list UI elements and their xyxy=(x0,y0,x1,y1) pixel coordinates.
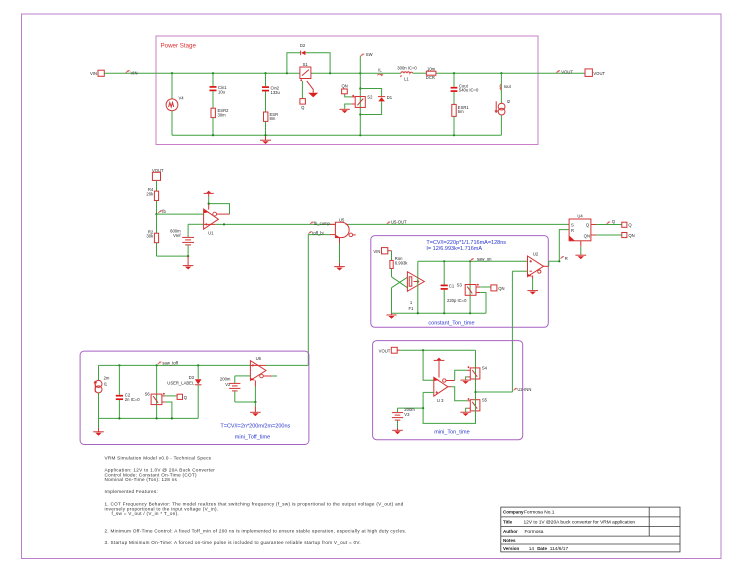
svg-text:VOUT: VOUT xyxy=(561,69,573,74)
junction C2 bottom xyxy=(118,417,120,419)
capacitor C2 xyxy=(116,365,140,418)
crossing input wires F1 xyxy=(392,277,408,313)
switch S3 xyxy=(457,261,479,313)
port VOUT xyxy=(585,69,605,77)
power flag U1 xyxy=(204,191,214,210)
voltage source V2 xyxy=(220,376,240,402)
junction Cin2 xyxy=(264,72,266,74)
bottom rail mini_Toff xyxy=(99,417,199,419)
svg-text:QN: QN xyxy=(584,233,591,238)
mini_Toff_time box xyxy=(80,351,309,444)
title block company row xyxy=(503,510,555,516)
svg-text:Vref: Vref xyxy=(173,233,181,238)
svg-text:10m: 10m xyxy=(427,66,436,71)
svg-text:S3: S3 xyxy=(457,282,463,287)
junction S6 top xyxy=(156,364,158,366)
resistor R4 xyxy=(146,180,158,214)
title block author row xyxy=(503,529,544,535)
ground input rail xyxy=(260,135,271,144)
svg-text:S: S xyxy=(571,223,574,228)
wire VIN to S1 xyxy=(104,72,300,74)
junction S3 top xyxy=(469,260,471,262)
port VOUT (mini_Ton) xyxy=(379,347,401,353)
port Q (S6) xyxy=(177,394,188,400)
junction U3 branch xyxy=(422,349,424,351)
svg-text:C1: C1 xyxy=(449,283,455,288)
switch S4 xyxy=(468,350,488,392)
current source I1 xyxy=(94,365,110,418)
net flag fb xyxy=(158,209,166,214)
junction Cin1 xyxy=(212,72,214,74)
ground S2 control xyxy=(339,109,349,113)
svg-text:D2: D2 xyxy=(300,43,306,48)
svg-text:QN: QN xyxy=(341,84,347,89)
port VOUT (feedback divider) xyxy=(152,168,164,181)
wire VOUT to S4 xyxy=(400,349,475,351)
net flag SW xyxy=(360,52,372,73)
comparator U1 xyxy=(204,209,219,236)
svg-text:2m: 2m xyxy=(104,376,110,381)
svg-text:VIN: VIN xyxy=(131,71,138,76)
diode D1 xyxy=(378,95,393,101)
capacitor C1 xyxy=(441,261,468,313)
diode D2 loop wire xyxy=(287,53,330,73)
svg-text:200m: 200m xyxy=(220,376,231,381)
net flag R xyxy=(561,256,568,261)
U6 minus input wire xyxy=(235,375,251,377)
bottom rail Ton generator xyxy=(392,312,487,314)
svg-text:U6: U6 xyxy=(256,356,262,361)
svg-text:D1: D1 xyxy=(387,95,393,100)
svg-text:mini_Ton_time: mini_Ton_time xyxy=(434,430,469,436)
bottom rail power stage xyxy=(172,134,501,136)
svg-text:3. Startup Minimum On-Time: A: 3. Startup Minimum On-Time: A forced on-… xyxy=(105,540,361,545)
svg-text:QN: QN xyxy=(498,286,504,291)
port VIN xyxy=(90,70,104,76)
svg-text:F1: F1 xyxy=(409,306,415,311)
junction VIN/V4 xyxy=(171,72,173,74)
svg-text:2. Minimum Off-Time Control: A: 2. Minimum Off-Time Control: A fixed Tof… xyxy=(105,528,407,533)
current flag IL xyxy=(377,68,383,76)
svg-text:Iout: Iout xyxy=(504,84,512,89)
junction D1 top xyxy=(359,87,361,89)
switch S2 xyxy=(352,73,373,135)
comparator U3 xyxy=(434,377,448,403)
junction S4/S5 node xyxy=(474,391,476,393)
junction rail Cin1 xyxy=(212,134,214,136)
switch S5 xyxy=(468,392,488,423)
junction fb xyxy=(155,213,157,215)
dependent source F1 xyxy=(407,272,424,311)
U2 ground xyxy=(527,276,538,295)
junction C1 bottom xyxy=(443,312,445,314)
svg-text:S5: S5 xyxy=(482,397,488,402)
voltage source Vref 600m xyxy=(170,224,194,256)
svg-text:U5: U5 xyxy=(339,217,345,222)
svg-text:Date: Date xyxy=(537,546,547,551)
junction F1 bottom xyxy=(417,312,419,314)
port QN (S3) xyxy=(491,285,505,291)
junction S6 return xyxy=(171,417,173,419)
svg-text:Title: Title xyxy=(503,519,513,524)
resistor Ron xyxy=(390,251,408,277)
resistor R2 xyxy=(146,214,158,256)
junction C2 top xyxy=(118,364,120,366)
svg-text:8m: 8m xyxy=(270,116,276,121)
S5 control from U3 output xyxy=(448,387,470,401)
svg-text:Power Stage: Power Stage xyxy=(161,43,197,50)
S6 control return xyxy=(162,402,172,418)
svg-text:DCR: DCR xyxy=(426,75,435,80)
svg-text:R: R xyxy=(571,228,574,233)
svg-text:30k: 30k xyxy=(146,234,154,239)
svg-text:U4: U4 xyxy=(577,214,583,219)
NAND gate U5 xyxy=(330,217,356,237)
U2 minus input wire xyxy=(512,270,527,272)
svg-text:220p IC=0: 220p IC=0 xyxy=(447,298,467,303)
junction D1 bottom xyxy=(359,113,361,115)
S3 control wire to QN xyxy=(476,286,491,288)
inductor L1 xyxy=(397,65,417,81)
U6 through line and output xyxy=(250,364,308,366)
svg-text:Formosa: Formosa xyxy=(525,529,544,535)
S2 control wiring xyxy=(345,94,356,109)
svg-text:S6: S6 xyxy=(145,391,151,396)
svg-text:Version: Version xyxy=(503,546,520,551)
wire DCR to VOUT port xyxy=(436,72,585,74)
svg-text:Company: Company xyxy=(503,510,524,515)
svg-text:VIN: VIN xyxy=(373,249,380,254)
comparator U2 xyxy=(528,251,544,276)
svg-text:USER_LABEL: USER_LABEL xyxy=(167,380,195,385)
S3 control return xyxy=(476,293,486,314)
svg-text:toff_bi: toff_bi xyxy=(312,230,323,235)
svg-text:T=CV/I=2n*200m/2m=200ns: T=CV/I=2n*200m/2m=200ns xyxy=(220,424,290,430)
voltage source V3 xyxy=(392,407,423,434)
ground S5 control xyxy=(460,408,470,416)
diode D3 xyxy=(167,365,201,418)
junction D3 top xyxy=(197,364,199,366)
junction C1 top xyxy=(443,260,445,262)
U1 hysteresis loop xyxy=(208,203,230,215)
svg-text:12V to 1V @20A buck converter: 12V to 1V @20A buck converter for VRM ap… xyxy=(524,519,636,525)
ground Vref xyxy=(183,256,194,269)
wire toff_bi vertical xyxy=(308,235,330,366)
svg-text:constant_Ton_time: constant_Ton_time xyxy=(428,320,474,326)
junction rail S2 xyxy=(359,134,361,136)
capacitor Cin2 xyxy=(262,73,280,112)
resistor DCR xyxy=(426,66,436,80)
mini_Ton_time box xyxy=(373,341,523,440)
svg-text:5m: 5m xyxy=(458,109,464,114)
comparator U6 xyxy=(250,356,277,381)
switch S1 xyxy=(300,62,311,81)
svg-text:V3: V3 xyxy=(404,412,410,417)
svg-text:I= 12/6.993k=1.716mA: I= 12/6.993k=1.716mA xyxy=(426,246,482,252)
junction S3 bottom xyxy=(469,312,471,314)
power flag U3 xyxy=(434,358,445,378)
svg-text:U1: U1 xyxy=(208,231,214,236)
U2 output wire xyxy=(544,260,561,266)
QN output wire xyxy=(591,234,622,236)
svg-text:20k: 20k xyxy=(146,192,154,197)
net flag fb_comp xyxy=(310,221,330,226)
net flag U2-INN xyxy=(514,387,532,392)
junction Cout xyxy=(453,72,455,74)
junction rail Cout xyxy=(453,134,455,136)
resistor ESR xyxy=(264,112,279,135)
svg-text:VRM Simulation Model v0.0 - Te: VRM Simulation Model v0.0 - Technical Sp… xyxy=(105,456,212,461)
top rail saw_toff xyxy=(99,364,251,366)
svg-text:14: 14 xyxy=(529,546,535,552)
svg-text:mini_Toff_time: mini_Toff_time xyxy=(235,435,270,441)
title block title row xyxy=(503,519,635,525)
SR flip-flop U4 xyxy=(569,214,591,241)
wire fb to U1 xyxy=(157,213,204,215)
junction Iout branch xyxy=(500,72,502,74)
port Q (S1 gate) xyxy=(300,99,306,110)
S4 control from U3 bubble xyxy=(446,370,470,380)
svg-text:VOUT: VOUT xyxy=(593,71,605,76)
junction rail Cin2 xyxy=(264,134,266,136)
svg-text:Nominal On-Time (Ton): 128 ns: Nominal On-Time (Ton): 128 ns xyxy=(105,477,178,482)
spec text block xyxy=(105,456,407,545)
svg-text:114/6/17: 114/6/17 xyxy=(550,546,569,552)
title block table xyxy=(501,507,680,552)
svg-text:SW: SW xyxy=(366,52,373,57)
svg-text:2n IC=0: 2n IC=0 xyxy=(125,397,140,402)
svg-text:S1: S1 xyxy=(303,62,309,67)
svg-text:R: R xyxy=(565,256,568,261)
U5 ground pin xyxy=(334,238,345,271)
port Q xyxy=(622,222,633,227)
wire L1 to DCR xyxy=(413,72,427,74)
U2-INN vertical wire xyxy=(511,271,513,392)
wire U2-INN xyxy=(476,391,513,393)
net flag saw_on xyxy=(470,257,492,262)
net flag U5-OUT xyxy=(387,220,407,225)
U3 plus loop xyxy=(422,392,476,423)
ground mini_Toff xyxy=(93,418,104,435)
svg-text:540u IC=0: 540u IC=0 xyxy=(459,88,479,93)
ground S4 control xyxy=(460,377,470,384)
D1 loop wire xyxy=(360,89,381,115)
svg-text:Formosa No.1: Formosa No.1 xyxy=(524,510,555,516)
wire R2 to Vref xyxy=(157,255,189,257)
top rail saw node xyxy=(418,260,528,262)
svg-text:U2-INN: U2-INN xyxy=(517,387,531,392)
svg-text:6.993k: 6.993k xyxy=(395,261,408,266)
svg-text:Notes: Notes xyxy=(503,538,516,543)
svg-text:U5-OUT: U5-OUT xyxy=(391,220,407,225)
svg-text:Author: Author xyxy=(503,529,518,534)
wire R input xyxy=(559,230,569,262)
svg-text:S4: S4 xyxy=(482,366,488,371)
U4 ground xyxy=(575,241,586,259)
junction S6 bottom xyxy=(156,417,158,419)
junction SW node xyxy=(359,72,361,74)
svg-text:U 3: U 3 xyxy=(437,398,444,403)
svg-text:V4: V4 xyxy=(179,96,185,101)
ground Ton generator xyxy=(386,313,396,319)
Q output wire xyxy=(591,224,622,226)
svg-text:saw_on: saw_on xyxy=(477,257,492,262)
voltage source V4 xyxy=(166,73,184,135)
wire U5 out to U4 S xyxy=(348,223,569,225)
wire S1 gate to port Q xyxy=(301,81,303,99)
port VIN (Ton generator) xyxy=(373,248,391,254)
svg-text:saw_toff: saw_toff xyxy=(162,361,178,366)
Iout branch wire xyxy=(500,73,502,103)
resistor ESR2 xyxy=(211,108,229,135)
wire S1 to L1 xyxy=(311,72,401,74)
capacitor Cout xyxy=(451,73,479,104)
current flag Iout xyxy=(500,84,512,90)
svg-text:S2: S2 xyxy=(367,94,373,99)
svg-text:U2: U2 xyxy=(533,251,539,256)
power stage box xyxy=(156,36,538,145)
S1 return to ground xyxy=(307,81,318,97)
svg-text:300n IC=0: 300n IC=0 xyxy=(397,65,417,70)
U3 minus loop xyxy=(423,350,434,380)
port QN xyxy=(622,233,635,239)
svg-text:VIN: VIN xyxy=(90,71,97,76)
svg-text:fb_comp: fb_comp xyxy=(314,221,331,226)
U6 ground branch xyxy=(235,381,261,417)
constant_Ton_time box xyxy=(371,236,549,328)
capacitor Cin1 xyxy=(210,73,228,108)
junction D2 right xyxy=(329,72,331,74)
svg-text:f_sw = V_out / (V_in * T_on).: f_sw = V_out / (V_in * T_on). xyxy=(112,511,179,516)
junction Vref bottom xyxy=(187,255,189,257)
S6 control wire to Q xyxy=(162,395,177,397)
net flag saw_toff xyxy=(158,361,179,366)
net flag VOUT xyxy=(556,69,573,74)
U1 input/output line xyxy=(188,223,335,225)
net flag toff_bi xyxy=(309,230,324,235)
net flag Q xyxy=(607,219,616,224)
svg-text:10u: 10u xyxy=(218,90,226,95)
title block version row xyxy=(503,546,568,552)
port QN (S2 gate) xyxy=(341,84,347,94)
resistor ESR1 xyxy=(452,104,470,135)
svg-text:VOUT: VOUT xyxy=(379,349,391,354)
diode D2 xyxy=(300,43,306,55)
svg-text:T=CV/I=220p*1/1.716mA=128ns: T=CV/I=220p*1/1.716mA=128ns xyxy=(426,240,506,246)
svg-text:30m: 30m xyxy=(218,112,227,117)
svg-text:Q: Q xyxy=(586,223,590,228)
current source I2 xyxy=(495,99,511,135)
switch S6 xyxy=(145,365,165,418)
svg-text:QN: QN xyxy=(628,233,634,238)
svg-text:133u: 133u xyxy=(271,90,281,95)
net flag VIN xyxy=(126,71,138,76)
junction D2 left xyxy=(286,72,288,74)
svg-text:V2: V2 xyxy=(225,382,231,387)
svg-text:L1: L1 xyxy=(404,77,409,82)
svg-text:Implemented Features:: Implemented Features: xyxy=(105,489,159,494)
F1 output vertical xyxy=(417,261,419,313)
